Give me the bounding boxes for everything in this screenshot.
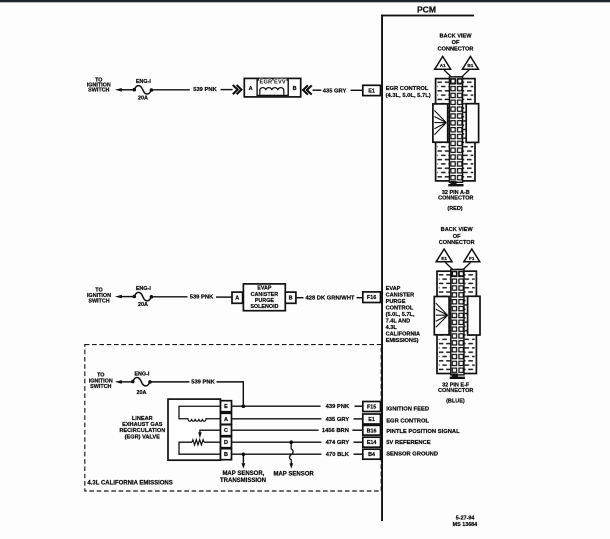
fuse ENG-I 20A (row 1) xyxy=(133,79,154,102)
svg-text:20A: 20A xyxy=(138,302,148,308)
node TO IGNITION SWITCH (row 3) xyxy=(89,373,113,391)
connector J1 body xyxy=(436,79,475,181)
svg-text:B4: B4 xyxy=(368,452,375,458)
svg-text:CONTROL: CONTROL xyxy=(386,306,414,312)
svg-text:B16: B16 xyxy=(367,428,377,434)
svg-text:PURGE: PURGE xyxy=(386,299,406,305)
connector J1 pin channel xyxy=(449,77,462,182)
terminal E1 (row 1) xyxy=(363,85,381,95)
connector J1 caption top xyxy=(438,33,474,52)
svg-text:539 PNK: 539 PNK xyxy=(190,295,214,301)
fuse ENG-I 20A (row 3) xyxy=(131,371,152,396)
svg-text:CALIFORNIA: CALIFORNIA xyxy=(386,332,421,338)
svg-text:PCM: PCM xyxy=(417,4,436,14)
svg-text:BACK VIEW: BACK VIEW xyxy=(439,33,472,39)
svg-text:B: B xyxy=(224,452,228,458)
node TO IGNITION SWITCH (row 2) xyxy=(87,288,111,305)
connector J1 left tab with wire fan xyxy=(433,104,448,142)
wire 474 GRY (pin D) xyxy=(232,440,363,446)
valve pin box B xyxy=(221,449,232,460)
svg-text:EGR CONTROL: EGR CONTROL xyxy=(386,419,429,425)
connector J1 bottom tab xyxy=(448,181,463,187)
svg-text:E1: E1 xyxy=(368,417,375,423)
svg-text:A: A xyxy=(224,417,228,423)
connector J1 top cap xyxy=(454,76,463,79)
arrow to ignition switch (row 3) xyxy=(115,380,132,384)
svg-text:E1: E1 xyxy=(441,256,447,261)
terminal F16 xyxy=(363,292,381,303)
connector J2 left tab with wire fan xyxy=(434,297,449,335)
svg-text:SWITCH: SWITCH xyxy=(90,384,111,390)
valve pin box D xyxy=(221,437,232,448)
pin pointer triangle E1 xyxy=(436,249,452,262)
svg-text:B1: B1 xyxy=(467,63,473,68)
valve pin box C xyxy=(221,425,232,436)
svg-text:20A: 20A xyxy=(138,96,148,102)
svg-text:PINTLE POSITION SIGNAL: PINTLE POSITION SIGNAL xyxy=(386,429,460,435)
solenoid EGR EVV xyxy=(244,78,300,97)
svg-text:E: E xyxy=(224,404,228,410)
wire 539 PNK (row 3 feed) xyxy=(152,380,244,407)
svg-text:428 DK GRN/WHT: 428 DK GRN/WHT xyxy=(306,296,355,302)
svg-text:SENSOR GROUND: SENSOR GROUND xyxy=(386,451,438,457)
svg-text:C: C xyxy=(224,428,228,434)
connector J1 right tab xyxy=(466,104,478,143)
svg-text:(RED): (RED) xyxy=(447,206,462,212)
svg-text:E1: E1 xyxy=(368,88,375,94)
wire 1456 BRN (pin C) xyxy=(232,428,363,434)
connector J2 pin channel xyxy=(451,270,464,375)
valve internal wiper arrow C xyxy=(198,430,220,438)
svg-text:5V REFERENCE: 5V REFERENCE xyxy=(386,440,431,446)
svg-text:A: A xyxy=(249,86,253,92)
svg-text:(4.3L, 5.0L, 5.7L): (4.3L, 5.0L, 5.7L) xyxy=(386,93,431,99)
valve internal coil E-A xyxy=(179,406,221,421)
connector J1 32 PIN A-B (RED) back view xyxy=(433,33,479,212)
connector J2 caption top xyxy=(439,227,475,246)
svg-text:OF: OF xyxy=(452,40,460,46)
junction dot 5V reference branch xyxy=(289,440,293,444)
svg-text:474 GRY: 474 GRY xyxy=(326,440,350,446)
junction dot sensor ground branch xyxy=(242,452,246,456)
wire 428 DK GRN/WHT xyxy=(296,296,363,302)
svg-text:F15: F15 xyxy=(367,404,376,410)
svg-text:435 GRY: 435 GRY xyxy=(326,417,350,423)
svg-text:IGNITION FEED: IGNITION FEED xyxy=(386,406,429,412)
net label EVAP CANISTER PURGE CONTROL xyxy=(386,286,421,344)
svg-text:A: A xyxy=(235,296,239,302)
pointer line A1 xyxy=(444,70,452,78)
connector J2 body xyxy=(437,271,476,373)
svg-text:439 PNK: 439 PNK xyxy=(326,404,350,410)
svg-text:EGR EVV: EGR EVV xyxy=(260,79,286,85)
node TO IGNITION SWITCH (row 1) xyxy=(87,78,111,94)
pin pointer triangle F1 xyxy=(464,249,480,262)
connector J2 top cap xyxy=(455,269,464,272)
svg-text:E14: E14 xyxy=(367,440,377,446)
inline connector chevrons (row 1 left) xyxy=(233,85,242,94)
svg-text:4.3L: 4.3L xyxy=(386,325,398,331)
svg-text:4.3L CALIFORNIA EMISSIONS: 4.3L CALIFORNIA EMISSIONS xyxy=(87,480,172,486)
connector J2 bottom tab xyxy=(450,374,465,380)
svg-text:CONNECTOR: CONNECTOR xyxy=(438,388,473,394)
svg-text:CANISTER: CANISTER xyxy=(251,292,279,298)
svg-text:SOLENOID: SOLENOID xyxy=(250,304,278,310)
net label EGR CONTROL xyxy=(386,86,431,99)
terminal B16 xyxy=(363,425,381,435)
fuse ENG-I 20A (row 2) xyxy=(133,286,154,308)
valve pin box E xyxy=(221,401,232,412)
arrow to ignition switch (row 2) xyxy=(115,295,134,299)
svg-text:(BLUE): (BLUE) xyxy=(446,399,465,405)
svg-text:CANISTER: CANISTER xyxy=(386,293,415,299)
svg-text:EGR CONTROL: EGR CONTROL xyxy=(386,86,429,92)
svg-text:470 BLK: 470 BLK xyxy=(326,452,350,458)
wire 470 BLK (pin B) xyxy=(232,452,363,458)
pin pointer triangle B1 xyxy=(462,56,478,69)
svg-text:SWITCH: SWITCH xyxy=(88,88,109,94)
valve label xyxy=(119,416,165,440)
svg-text:CONNECTOR: CONNECTOR xyxy=(438,46,474,52)
branch arrow to MAP SENSOR, TRANSMISSION xyxy=(220,456,266,484)
svg-text:MAP SENSOR,: MAP SENSOR, xyxy=(222,471,264,477)
svg-text:CONNECTOR: CONNECTOR xyxy=(438,196,473,202)
svg-text:20A: 20A xyxy=(137,390,147,396)
svg-text:D: D xyxy=(224,440,228,446)
top border bar xyxy=(0,0,610,2)
svg-text:7.4L AND: 7.4L AND xyxy=(386,319,411,325)
svg-text:BACK VIEW: BACK VIEW xyxy=(441,227,474,233)
pointer line F1 xyxy=(462,263,470,271)
svg-text:EVAP: EVAP xyxy=(386,286,401,292)
connector J2 32 PIN E-F (BLUE) back view xyxy=(434,227,480,405)
svg-text:F1: F1 xyxy=(469,256,475,261)
svg-text:MS 13684: MS 13684 xyxy=(453,522,478,528)
svg-text:A1: A1 xyxy=(440,63,446,68)
svg-text:CONNECTOR: CONNECTOR xyxy=(439,240,475,246)
PCM boundary line xyxy=(381,15,474,521)
pointer line B1 xyxy=(461,70,469,78)
wire 435 GRY (pin A) xyxy=(232,417,363,423)
svg-text:ENG-I: ENG-I xyxy=(136,286,151,292)
valve internal resistor D-B xyxy=(179,440,221,455)
terminal F15 xyxy=(363,402,381,412)
svg-text:SWITCH: SWITCH xyxy=(88,299,109,305)
svg-text:5-27-94: 5-27-94 xyxy=(456,515,475,521)
svg-text:(EGR) VALVE: (EGR) VALVE xyxy=(125,434,160,440)
svg-text:RECIRCULATION: RECIRCULATION xyxy=(119,428,165,434)
dashed box 4.3L CALIFORNIA EMISSIONS xyxy=(85,345,381,491)
solenoid EVAP CANISTER PURGE xyxy=(232,284,296,311)
terminal B4 xyxy=(363,449,381,459)
svg-text:PURGE: PURGE xyxy=(255,298,275,304)
branch arrow to MAP SENSOR (hops over ground wire) xyxy=(273,444,314,478)
terminal E14 xyxy=(363,437,381,447)
svg-text:F16: F16 xyxy=(367,295,376,301)
svg-text:539 PNK: 539 PNK xyxy=(191,380,215,386)
svg-text:TRANSMISSION: TRANSMISSION xyxy=(220,478,266,484)
svg-text:B: B xyxy=(289,296,293,302)
svg-text:OF: OF xyxy=(453,234,461,240)
wire 439 PNK (pin E) xyxy=(232,404,363,410)
pin pointer triangle A1 xyxy=(435,56,451,69)
terminal E1 (lower) xyxy=(363,414,381,424)
connector J2 right tab xyxy=(468,296,480,335)
svg-text:1456 BRN: 1456 BRN xyxy=(322,428,349,434)
connector J2 caption bottom xyxy=(438,383,473,405)
connector J1 caption bottom xyxy=(438,190,473,212)
inline connector chevrons (row 1 right) xyxy=(303,85,312,94)
svg-text:EVAP: EVAP xyxy=(257,286,272,292)
junction dot ignition feed xyxy=(241,404,245,408)
linear EGR valve xyxy=(119,399,231,460)
wire 539 PNK (row 2) xyxy=(153,295,232,301)
svg-text:ENG-I: ENG-I xyxy=(136,79,151,85)
date note xyxy=(453,515,478,528)
svg-text:B: B xyxy=(293,86,297,92)
wire 539 PNK (row 1) xyxy=(153,87,233,93)
svg-text:435 GRY: 435 GRY xyxy=(323,88,347,94)
wire 435 GRY (row 1) xyxy=(313,88,363,94)
svg-text:EMISSIONS): EMISSIONS) xyxy=(386,338,419,344)
pointer line E1 xyxy=(445,263,453,271)
arrow to ignition switch (row 1) xyxy=(115,88,134,92)
svg-text:ENG-I: ENG-I xyxy=(134,371,149,377)
valve pin box A xyxy=(221,413,232,424)
svg-text:539 PNK: 539 PNK xyxy=(193,87,217,93)
svg-text:(5.0L, 5.7L,: (5.0L, 5.7L, xyxy=(386,312,415,318)
svg-text:MAP SENSOR: MAP SENSOR xyxy=(273,472,314,478)
